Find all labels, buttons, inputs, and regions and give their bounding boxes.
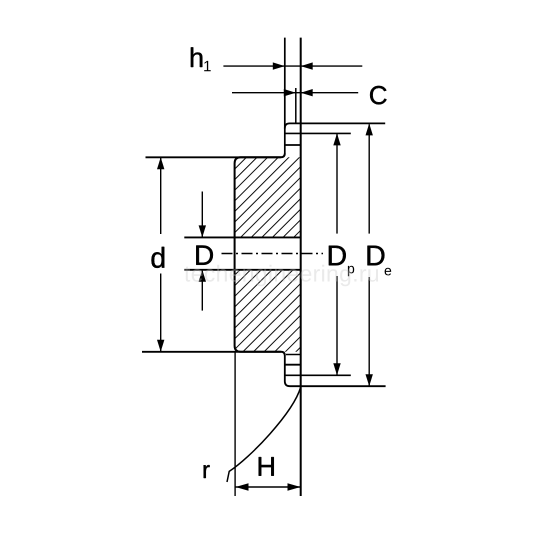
arrow h1 right bbox=[301, 62, 313, 69]
arrow D up bbox=[199, 270, 206, 282]
wire tooth flank extension line left bbox=[284, 38, 286, 154]
tooth profile line top 2 bbox=[285, 144, 301, 146]
dimension Dp line bbox=[336, 134, 338, 234]
arrow Dp up bbox=[333, 133, 340, 145]
arrow C left bbox=[284, 89, 296, 96]
wire hub-left H extension bbox=[234, 352, 236, 496]
arrow C right bbox=[301, 89, 313, 96]
tooth profile line bottom 2 (Dp reference) bbox=[285, 374, 351, 376]
hub section hatch lower bbox=[235, 270, 301, 352]
label C bbox=[370, 86, 387, 105]
hub bottom edge with d extension bbox=[142, 351, 281, 353]
hub top edge with d extension bbox=[146, 156, 281, 158]
dimension H line bbox=[236, 486, 301, 488]
hub section hatch upper bbox=[235, 157, 301, 237]
bore top edge bbox=[184, 236, 300, 238]
label h1 bbox=[191, 47, 202, 67]
label H bbox=[259, 457, 274, 476]
arrow Dp down bbox=[333, 363, 340, 375]
wire chamfer projection line C bbox=[295, 88, 297, 123]
tooth profile line bottom 0 bbox=[286, 354, 301, 356]
arrow De down bbox=[366, 374, 373, 386]
dimension D arrow line lower bbox=[201, 271, 203, 311]
label r bbox=[204, 465, 210, 478]
arrow H right bbox=[288, 483, 301, 490]
arrow D down bbox=[199, 225, 206, 237]
tooth radius curve r bbox=[227, 387, 301, 482]
tooth tip top edge bbox=[285, 123, 385, 128]
dimension D arrow line upper bbox=[201, 192, 203, 237]
label Dp bbox=[329, 246, 346, 266]
dimension De line bbox=[368, 124, 370, 233]
centerline axis dash-dot bbox=[222, 253, 324, 255]
arrow H left bbox=[236, 483, 249, 490]
dimension h1 line bbox=[223, 65, 362, 67]
label De bbox=[368, 246, 385, 266]
arrow d bottom bbox=[157, 340, 164, 352]
label D bbox=[196, 246, 213, 265]
dimension C line bbox=[232, 92, 358, 94]
label d bbox=[152, 247, 165, 268]
tooth profile line bottom 1 bbox=[285, 364, 301, 366]
arrow h1 left bbox=[273, 62, 285, 69]
bore bottom edge bbox=[184, 269, 300, 271]
arrow d top bbox=[157, 157, 164, 169]
wire tooth tip extension line right bbox=[300, 38, 302, 496]
dimension d line upper bbox=[160, 157, 162, 234]
watermark techengineering.ru bbox=[184, 265, 378, 287]
tooth bottom edge with De extension bbox=[285, 356, 386, 387]
arrow De up bbox=[366, 123, 373, 135]
dimension d line lower bbox=[160, 274, 162, 352]
hub outline bbox=[235, 154, 285, 356]
tooth profile line top 1 (Dp reference) bbox=[285, 132, 351, 134]
